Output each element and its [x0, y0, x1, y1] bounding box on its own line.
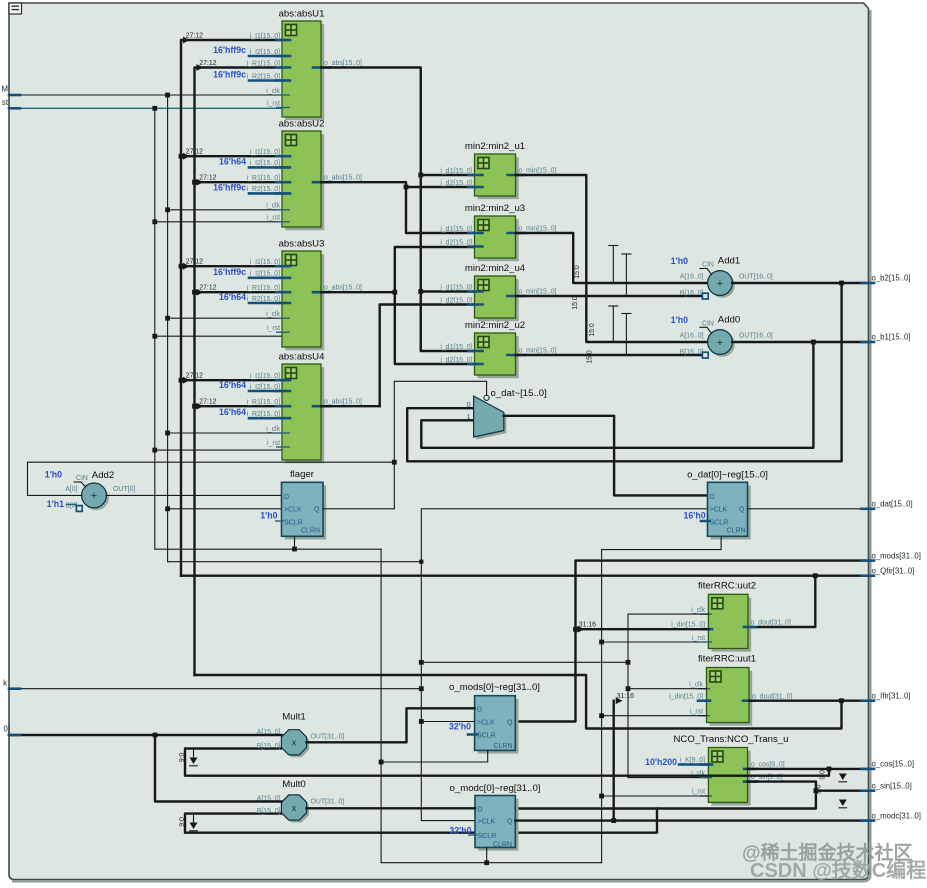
svg-text:i_d1[15..0]: i_d1[15..0]	[440, 344, 472, 351]
svg-text:i_clk: i_clk	[266, 311, 280, 318]
svg-text:32'h0: 32'h0	[449, 721, 471, 731]
svg-text:27:12: 27:12	[199, 285, 216, 292]
svg-text:27:12: 27:12	[186, 149, 203, 156]
label 15:0 slice on min2_u1 net upper	[572, 296, 579, 310]
svg-text:o_b2[15..0]: o_b2[15..0]	[872, 274, 911, 283]
svg-text:i_d1[15..0]: i_d1[15..0]	[440, 226, 472, 233]
svg-text:CSDN @技数C编程: CSDN @技数C编程	[750, 858, 926, 882]
block fiterRRC:uut2	[671, 581, 791, 652]
adder Add1	[671, 256, 773, 300]
svg-text:SCLR: SCLR	[284, 520, 303, 527]
svg-text:CLRN: CLRN	[493, 743, 512, 750]
label 15:0 slice on min2_u1 net lower	[589, 323, 596, 337]
svg-text:SCLR: SCLR	[478, 833, 497, 840]
svg-text:i_R1[15..0]: i_R1[15..0]	[247, 285, 280, 292]
register o_mods[0]~reg[31..0]	[449, 682, 540, 754]
node - cos junction	[827, 767, 832, 772]
svg-text:i_clk: i_clk	[266, 88, 280, 95]
node - rst junction	[152, 219, 157, 224]
svg-text:16'hff9c: 16'hff9c	[213, 267, 246, 277]
svg-text:27:12: 27:12	[186, 373, 203, 380]
wire - uut1 o_dout to o_Ifir output	[749, 700, 869, 702]
svg-text:Add2: Add2	[92, 470, 114, 481]
svg-text:o_dout[31..0]: o_dout[31..0]	[752, 693, 792, 700]
output pin o_sin[15..0]	[862, 781, 912, 790]
svg-text:i_d2[15..0]: i_d2[15..0]	[440, 180, 472, 187]
svg-text:SCLR: SCLR	[710, 520, 729, 527]
wire - sin[9..0] feedback to Mult0.B	[185, 791, 816, 833]
svg-text:o_min[15..0]: o_min[15..0]	[519, 288, 557, 295]
arrowhead on bus1 top corner (absU1 i_I1)	[183, 37, 190, 44]
output pin o_b1[15..0]	[862, 333, 911, 342]
wire - bus2 tap to abs i_R1 at y=182.2	[195, 179, 283, 186]
svg-text:i_rst: i_rst	[692, 789, 705, 796]
svg-text:15:0: 15:0	[589, 323, 596, 337]
svg-text:27:12: 27:12	[199, 60, 216, 67]
svg-text:16'h64: 16'h64	[219, 407, 246, 417]
wire - absU2 output to min2 d-inputs (vertical x=406)	[321, 182, 475, 233]
svg-text:i_clk: i_clk	[266, 426, 280, 433]
svg-text:9:0: 9:0	[820, 770, 827, 780]
register o_modc[0]~reg[31..0]	[449, 783, 540, 851]
svg-text:i_rst: i_rst	[267, 325, 280, 332]
svg-text:9:0: 9:0	[179, 753, 186, 763]
wire - Ifir feedback trunk to bus2	[195, 675, 842, 729]
register flager	[260, 469, 326, 539]
wire - o_dat reg Q to o_dat output	[748, 508, 869, 510]
svg-text:1: 1	[467, 414, 471, 421]
block abs:absU4	[186, 352, 362, 464]
wire - o_modc reg CLRN stub	[486, 848, 488, 863]
svg-text:15:0: 15:0	[574, 265, 581, 279]
wire - clk input net (i_clk_50M) horizontal from left edge	[9, 94, 282, 96]
node - rst junction at uut2	[599, 640, 604, 645]
wire - NCO o_cos to o_cos output	[748, 768, 869, 770]
node - o_Qfir junction at uut2 dout riser	[813, 573, 818, 578]
wire - cos[9..0] feedback to Mult1.B	[185, 749, 829, 776]
wire - i_din input to Mult1.A and Mult0.A	[9, 735, 282, 802]
svg-text:abs:absU1: abs:absU1	[279, 9, 325, 20]
svg-text:OUT[31..0]: OUT[31..0]	[311, 733, 345, 740]
svg-text:CIN: CIN	[76, 475, 88, 482]
wire - min2_u4 output to Add1.B	[516, 295, 704, 297]
svg-text:Add0: Add0	[718, 314, 740, 325]
svg-text:CIN: CIN	[702, 262, 714, 269]
svg-text:o_cos[9..0]: o_cos[9..0]	[751, 762, 785, 769]
wire - rst bus tap to abs i_rst at y=336.2	[155, 335, 282, 337]
svg-text:i_d2[15..0]: i_d2[15..0]	[440, 357, 472, 364]
wire - uut2 rst branch from rst vertical	[602, 641, 709, 643]
node - bus2 junction	[192, 404, 197, 409]
wire - o_modc Q riser to uut1 din (31:16 slice)	[614, 693, 634, 821]
wire - bus1 tap to abs i_I1 at y=266.2	[181, 263, 282, 270]
wire - absU4 output to min2 d-inputs (vertical x=379.7)	[321, 305, 475, 407]
svg-text:o_abs[15..0]: o_abs[15..0]	[324, 175, 362, 182]
label 15:0 slice on min2_u2 net	[587, 350, 594, 364]
svg-text:i_K[9..0]: i_K[9..0]	[680, 757, 705, 764]
node - uut1 dout junction	[839, 698, 844, 703]
wire - flager Q to mux select and Add2.A	[28, 381, 487, 509]
node - clk input junction on clk bus	[165, 93, 170, 98]
svg-text:i_rst: i_rst	[267, 100, 280, 107]
slice arrow down at Mult0.B corner	[190, 814, 198, 831]
svg-text:i_rst: i_rst	[267, 215, 280, 222]
constant 1h1 at Add2.B	[47, 499, 77, 509]
svg-text:i_rst: i_rst	[690, 708, 703, 715]
svg-text:i_I1[15..0]: i_I1[15..0]	[250, 149, 280, 156]
svg-text:OUT[16..0]: OUT[16..0]	[739, 274, 773, 281]
svg-text:o_abs[15..0]: o_abs[15..0]	[324, 285, 362, 292]
svg-text:15:0: 15:0	[572, 296, 579, 310]
wire - Add2 OUT to flager D	[106, 494, 281, 496]
wire - Add0 OUT to o_b1 output	[732, 341, 868, 343]
block NCO_Trans:NCO_Trans_u	[674, 734, 789, 806]
wire - o_mods output row y=560.6	[576, 561, 869, 630]
svg-text:D: D	[478, 806, 483, 813]
input pin label M (clipped)	[2, 85, 9, 94]
svg-text:B[15..0]: B[15..0]	[257, 808, 281, 815]
svg-text:o_modc[31..0]: o_modc[31..0]	[872, 811, 921, 820]
svg-text:D: D	[710, 494, 715, 501]
svg-text:k: k	[3, 679, 7, 688]
wire - clk vertical distribution bus x=167.6	[167, 95, 169, 562]
node - modc Q junction to uut1 riser	[611, 818, 616, 823]
mux o_dat~[15..0]	[467, 388, 547, 440]
bus stub T2 above Add1.B	[622, 254, 631, 296]
block abs:absU1	[186, 9, 362, 121]
wire - Add1 feedback to mux input 0	[407, 283, 841, 461]
svg-text:D: D	[477, 707, 482, 714]
svg-text:st: st	[2, 98, 9, 107]
node - clk junction at row 561.7	[419, 560, 423, 564]
bus stub T1 above Add1.A	[609, 246, 618, 284]
block min2:min2_u4	[440, 263, 556, 321]
svg-text:i_d1[15..0]: i_d1[15..0]	[440, 168, 472, 175]
svg-text:i_I1[15..0]: i_I1[15..0]	[250, 33, 280, 40]
svg-text:OUT[0]: OUT[0]	[113, 486, 135, 493]
svg-text:D: D	[284, 494, 289, 501]
svg-text:abs:absU3: abs:absU3	[279, 239, 325, 250]
multiplier Mult1	[257, 711, 345, 757]
wire - min2_u3 output to Add1.A	[516, 233, 708, 283]
wire - clk bus tap to abs i_clk at y=318.2	[168, 317, 282, 319]
svg-text:CLRN: CLRN	[301, 528, 320, 535]
wire - rst lower vertical x=601.6	[601, 550, 603, 863]
svg-text:27:12: 27:12	[186, 32, 203, 39]
svg-text:10'h200: 10'h200	[645, 757, 677, 767]
svg-text:CLRN: CLRN	[493, 842, 512, 849]
svg-text:o_dout[31..0]: o_dout[31..0]	[751, 620, 791, 627]
svg-text:i_clk: i_clk	[689, 681, 703, 688]
svg-text:min2:min2_u1: min2:min2_u1	[465, 141, 525, 152]
wire - bottom clk input to clk vertical	[9, 688, 421, 690]
svg-text:1'h0: 1'h0	[671, 315, 688, 325]
wire - Mult0 OUT to o_modc reg D	[307, 807, 476, 809]
wire - o_modc reg Q to o_modc output	[515, 819, 868, 821]
wire - o_mods reg CLK branch	[421, 721, 474, 723]
svg-text:9:0: 9:0	[179, 817, 186, 827]
input pin label 0] (clipped)	[3, 725, 10, 734]
label 9:0 on cos tap	[820, 770, 827, 780]
svg-text:1'h0: 1'h0	[260, 511, 277, 521]
wire - clk bus tap to abs i_clk at y=433	[168, 432, 282, 434]
node - clk junction at o_mods reg	[419, 719, 424, 724]
svg-text:i_R1[15..0]: i_R1[15..0]	[247, 399, 280, 406]
block min2:min2_u1	[440, 141, 556, 199]
label 9:0 at Mult1.B	[179, 753, 186, 763]
constant 10h200 at NCO i_K	[645, 757, 708, 767]
svg-text:i_I1[15..0]: i_I1[15..0]	[250, 373, 280, 380]
svg-text:31:16: 31:16	[617, 693, 634, 700]
svg-text:i_din[15..0]: i_din[15..0]	[671, 622, 705, 629]
wire - rst bus tap to abs i_rst at y=450.1	[155, 449, 282, 451]
wire - feedback bus1 (Qfir to abs i_I1 inputs) x=181	[181, 40, 282, 576]
svg-text:o_min[15..0]: o_min[15..0]	[519, 225, 557, 232]
input pin ticks at left frame edge	[9, 95, 20, 735]
wire - absU1 output to min2 d-inputs (vertical x=420.75)	[321, 68, 475, 352]
node - junction absU3 net	[392, 290, 397, 295]
output pin o_dat[15..0]	[862, 500, 913, 509]
wire - uut2 clk from clk vertical x=628	[628, 614, 708, 778]
svg-text:16'h64: 16'h64	[219, 380, 246, 390]
node - clk junction	[165, 207, 170, 212]
node - bus2 junction	[192, 290, 197, 295]
node - bus2 junction	[192, 180, 197, 185]
svg-text:Add1: Add1	[718, 256, 740, 267]
svg-text:abs:absU2: abs:absU2	[279, 119, 325, 130]
block min2:min2_u3	[440, 203, 556, 261]
svg-text:o_abs[15..0]: o_abs[15..0]	[324, 399, 362, 406]
wire - uut1 rst branch	[602, 715, 707, 717]
wire - bus1 tap to abs i_I1 at y=156.2	[181, 153, 282, 160]
watermark csdn	[750, 858, 926, 882]
wire - bus1 tap to abs i_I1 at y=380.2	[181, 377, 282, 384]
node - clk junction	[165, 316, 170, 321]
svg-text:0]: 0]	[3, 725, 10, 734]
register o_dat[0]~reg[15..0]	[683, 470, 767, 540]
svg-text:o_mods[0]~reg[31..0]: o_mods[0]~reg[31..0]	[449, 682, 540, 693]
wire - Mult1 OUT to o_mods reg D	[307, 708, 475, 742]
wire - uut2 o_dout riser	[748, 576, 815, 627]
svg-text:16'h64: 16'h64	[219, 292, 246, 302]
svg-text:>CLK: >CLK	[284, 507, 302, 514]
wire - min2_u1 output to Add0.A	[516, 175, 708, 342]
svg-text:o_Qfir[31..0]: o_Qfir[31..0]	[872, 566, 915, 575]
watermark juejin	[742, 841, 913, 864]
wire - rst input net horizontal from left edge (highlighted teal)	[9, 107, 282, 109]
wire - o_Qfir feedback row y=575.7 (bus1 to frame output)	[181, 575, 869, 577]
svg-text:Mult0: Mult0	[282, 779, 305, 790]
svg-text:o_dat~[15..0]: o_dat~[15..0]	[491, 388, 547, 399]
svg-text:1'h0: 1'h0	[45, 470, 62, 480]
svg-text:o_abs[15..0]: o_abs[15..0]	[324, 60, 362, 67]
node - clk junction at flager row	[165, 506, 170, 511]
bus stub T4 above Add0.B	[622, 314, 631, 356]
svg-text:i_rst: i_rst	[692, 635, 705, 642]
node - Add1 OUT junction	[839, 281, 844, 286]
node - rst junction at uut1	[599, 713, 604, 718]
svg-text:M: M	[2, 85, 9, 94]
svg-text:i_d2[15..0]: i_d2[15..0]	[440, 297, 472, 304]
svg-text:o_mods[31..0]: o_mods[31..0]	[872, 551, 921, 560]
adder Add2	[45, 470, 136, 512]
svg-text:i_clk: i_clk	[266, 203, 280, 210]
svg-text:i_clk: i_clk	[691, 607, 705, 614]
svg-text:min2:min2_u2: min2:min2_u2	[465, 320, 525, 331]
wire - rst vertical x=381.1 down to bottom row	[381, 549, 601, 863]
wire - mux output to o_dat register D	[504, 416, 708, 496]
svg-text:B[16..0]: B[16..0]	[680, 290, 704, 297]
output pin o_Ifir[31..0]	[862, 691, 911, 700]
svg-text:min2:min2_u3: min2:min2_u3	[465, 203, 525, 214]
svg-text:o_min[15..0]: o_min[15..0]	[519, 167, 557, 174]
svg-text:i_d1[15..0]: i_d1[15..0]	[440, 284, 472, 291]
svg-text:27:12: 27:12	[186, 259, 203, 266]
svg-text:abs:absU4: abs:absU4	[279, 352, 326, 363]
block fiterRRC:uut1	[669, 654, 792, 726]
svg-text:i_I1[15..0]: i_I1[15..0]	[250, 259, 280, 266]
block abs:absU3	[186, 239, 362, 351]
wire - o_dat reg CLRN stub down-left to rst vertical	[602, 536, 722, 549]
svg-text:16'hff9c: 16'hff9c	[213, 70, 246, 80]
svg-text:o_sin[15..0]: o_sin[15..0]	[872, 781, 912, 790]
node - Add0 OUT junction	[811, 340, 816, 345]
svg-text:32'h0: 32'h0	[449, 826, 471, 836]
svg-text:27:12: 27:12	[199, 175, 216, 182]
node - clk junctions on row 662.3	[419, 660, 630, 665]
slice arrow down at Mult1.B corner	[190, 749, 198, 766]
svg-text:o_modc[0]~reg[31..0]: o_modc[0]~reg[31..0]	[450, 783, 541, 794]
svg-text:Q: Q	[507, 720, 513, 727]
svg-text:NCO_Trans:NCO_Trans_u: NCO_Trans:NCO_Trans_u	[674, 734, 789, 745]
svg-text:B[15..0]: B[15..0]	[257, 743, 281, 750]
node - bus1 junction	[179, 264, 184, 269]
input pin label st (clipped)	[2, 98, 9, 107]
node - junction on mods riser at din row	[573, 627, 578, 632]
svg-text:CIN: CIN	[702, 320, 714, 327]
block min2:min2_u2	[440, 320, 556, 378]
node - sin junction	[814, 788, 819, 793]
wire - Add0 feedback to mux input 1	[421, 342, 813, 448]
svg-text:o_Ifir[31..0]: o_Ifir[31..0]	[872, 691, 911, 700]
node - junction absU1 net at min2_u4.d1	[418, 289, 423, 294]
svg-text:o_min[15..0]: o_min[15..0]	[519, 347, 557, 354]
svg-text:A[16..0]: A[16..0]	[680, 333, 704, 340]
node - junction CLRN net at x=381.6	[379, 760, 384, 765]
svg-text:0: 0	[467, 402, 471, 409]
wire - NCO o_sin to o_sin output	[748, 782, 869, 791]
svg-text:16'h0: 16'h0	[683, 511, 705, 521]
wire - o_mods reg Q riser to uut2 din (31:16 slice)	[515, 621, 708, 721]
svg-text:1'h0: 1'h0	[671, 256, 688, 266]
svg-text:9:0: 9:0	[816, 785, 823, 795]
node - junction absU1 net at min2_u1.d1	[418, 173, 423, 178]
svg-text:o_b1[15..0]: o_b1[15..0]	[872, 333, 911, 342]
svg-text:OUT[16..0]: OUT[16..0]	[739, 333, 773, 340]
output pin o_Qfir[31..0]	[862, 566, 915, 575]
svg-text:fiterRRC:uut1: fiterRRC:uut1	[698, 654, 756, 665]
bus stub T3 above Add0.A	[609, 306, 618, 342]
svg-text:min2:min2_u4: min2:min2_u4	[465, 263, 526, 274]
svg-text:1'h1: 1'h1	[47, 499, 64, 509]
wire - clk lower vertical x=421.3 (o_dat CLK to o_modc CLK)	[421, 509, 707, 821]
wire - Add1 OUT to o_b2 output	[732, 282, 868, 284]
wire - clk branch row y=561.7 joining lower clk vertical	[168, 561, 422, 563]
svg-text:16'hff9c: 16'hff9c	[213, 182, 246, 192]
wire - bus2 tap to abs i_R1 at y=406.2	[195, 403, 283, 410]
wire - rst bus tap to abs i_rst at y=221.8	[155, 221, 282, 223]
svg-text:o_dat[15..0]: o_dat[15..0]	[872, 500, 913, 509]
slice arrow down on sin tap	[839, 800, 847, 808]
svg-text:A[0]: A[0]	[65, 486, 77, 493]
wire - flager CLRN stub	[294, 536, 296, 549]
label 9:0 at Mult0.B	[179, 817, 186, 827]
svg-text:o_dat[0]~reg[15..0]: o_dat[0]~reg[15..0]	[687, 470, 768, 481]
node - rst junction	[152, 334, 157, 339]
svg-text:+: +	[717, 278, 723, 290]
wire - clk tap to flager CLK	[168, 508, 282, 510]
svg-text:i_din[15..0]: i_din[15..0]	[669, 693, 703, 700]
svg-text:CLRN: CLRN	[726, 528, 745, 535]
svg-text:i_rst: i_rst	[267, 440, 280, 447]
svg-text:15:0: 15:0	[587, 350, 594, 364]
node - rst junction at NCO	[599, 794, 604, 799]
wire - o_mods reg CLRN stub	[381, 750, 488, 762]
node - clk junction	[165, 431, 170, 436]
node - junction at o_modc CLRN on bottom row	[484, 860, 489, 865]
label 9:0 on sin tap	[816, 785, 823, 795]
svg-text:Q: Q	[739, 507, 745, 514]
node - flager Q junction to Add2.A branch	[392, 460, 397, 465]
output pin o_b2[15..0]	[862, 274, 911, 283]
node - bus1 junction	[179, 378, 184, 383]
node - junction on din input	[153, 733, 158, 738]
svg-text:27:12: 27:12	[199, 399, 216, 406]
svg-text:>CLK: >CLK	[478, 818, 496, 825]
svg-text:o_cos[15..0]: o_cos[15..0]	[872, 760, 914, 769]
adder Add0	[671, 314, 773, 358]
svg-text:SCLR: SCLR	[477, 733, 496, 740]
svg-text:Q: Q	[314, 507, 320, 514]
svg-text:B[16..0]: B[16..0]	[680, 349, 704, 356]
arrowhead on bus2 top corner (absU1 i_R1)	[197, 64, 204, 71]
multiplier Mult0	[257, 779, 345, 823]
node - flager CLRN junction	[292, 547, 297, 552]
svg-text:A[16..0]: A[16..0]	[680, 274, 704, 281]
wire - NCO rst branch	[602, 795, 709, 797]
wire - clk bus tap to abs i_clk at y=209.8	[168, 209, 282, 211]
svg-text:x: x	[292, 738, 297, 748]
wire - feedback bus2 (Ifir to abs i_R1 inputs) x=194.5	[195, 68, 283, 676]
node - clk junction at uut1	[626, 686, 631, 691]
svg-text:x: x	[292, 803, 297, 813]
svg-text:flager: flager	[290, 469, 315, 480]
wire - uut1 clk branch	[628, 688, 707, 690]
svg-text:Q: Q	[507, 818, 513, 825]
output pin o_mods[31..0]	[862, 551, 921, 560]
wire - min2_u2 output to Add0.B	[516, 354, 704, 356]
svg-text:i_R1[15..0]: i_R1[15..0]	[247, 60, 280, 67]
node - junction bottom clk at x=421.3	[419, 686, 424, 691]
collapse icon (top-left)	[9, 3, 22, 14]
svg-text:16'h64: 16'h64	[219, 156, 246, 166]
slice arrow down on cos tap	[839, 774, 847, 782]
svg-text:+: +	[717, 337, 723, 349]
wire - rst trunk along y=549 cornering down at x=381.1	[155, 548, 381, 550]
node - bus1 junction	[179, 154, 184, 159]
node - junction absU2 net at min2_u1.d2	[404, 185, 409, 190]
output pin o_cos[15..0]	[862, 760, 914, 769]
